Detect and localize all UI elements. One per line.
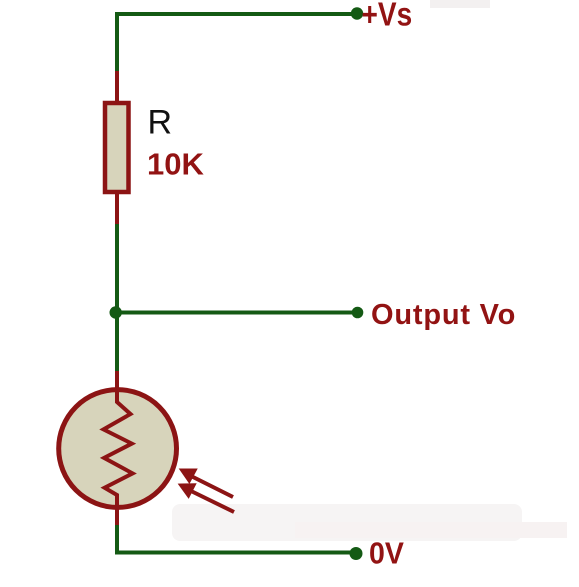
svg-text:10K: 10K xyxy=(147,147,204,182)
svg-text:R: R xyxy=(148,104,173,142)
svg-text:Output Vo: Output Vo xyxy=(371,299,516,331)
svg-text:+Vs: +Vs xyxy=(362,0,413,33)
svg-text:0V: 0V xyxy=(369,536,404,570)
